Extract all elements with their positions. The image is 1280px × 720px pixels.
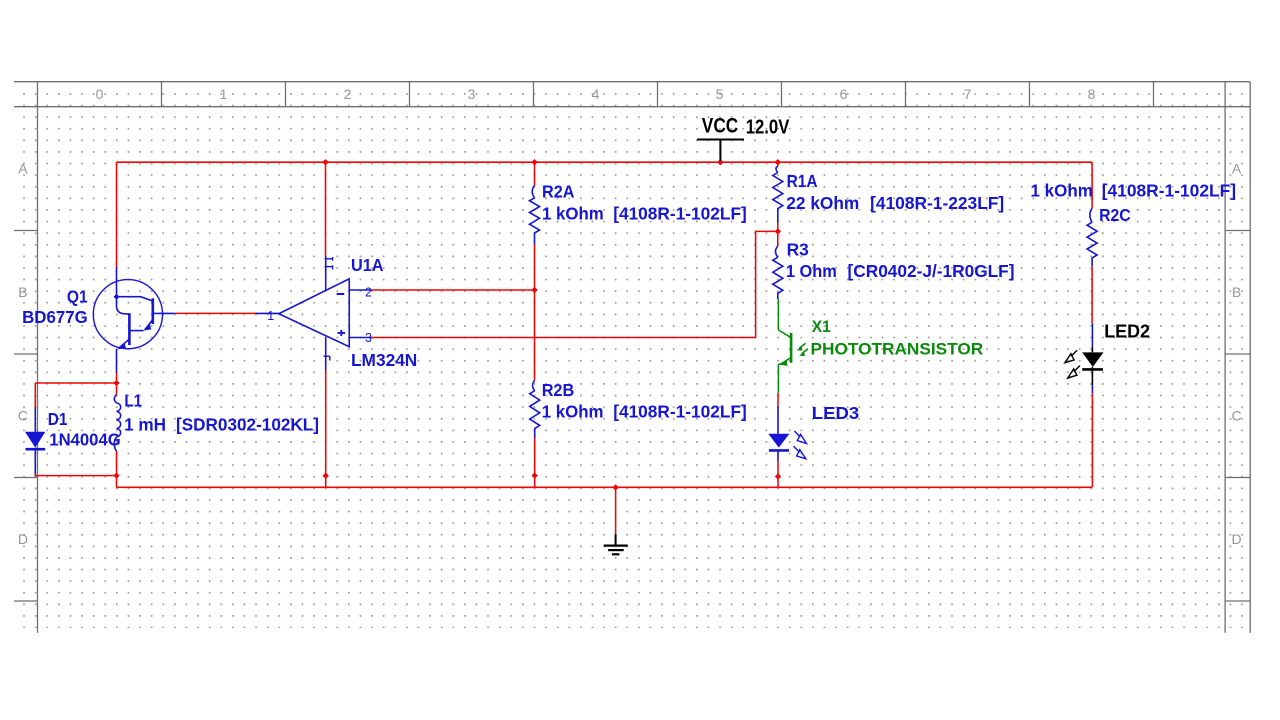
svg-text:R2B: R2B (542, 380, 575, 400)
svg-text:1 kOhm: 1 kOhm (542, 401, 604, 421)
svg-text:1 kOhm: 1 kOhm (1031, 181, 1093, 201)
svg-text:PHOTOTRANSISTOR: PHOTOTRANSISTOR (811, 340, 984, 358)
svg-text:1 kOhm: 1 kOhm (542, 203, 604, 223)
svg-text:LED3: LED3 (812, 403, 860, 423)
svg-text:0: 0 (96, 86, 104, 102)
svg-text:12.0V: 12.0V (746, 116, 790, 138)
svg-text:4: 4 (592, 86, 600, 102)
svg-text:LED2: LED2 (1104, 322, 1150, 342)
svg-text:LM324N: LM324N (351, 350, 417, 370)
svg-text:2: 2 (365, 285, 372, 299)
svg-text:1 mH: 1 mH (124, 414, 166, 434)
svg-text:[4108R-1-223LF]: [4108R-1-223LF] (870, 193, 1004, 213)
svg-text:[4108R-1-102LF]: [4108R-1-102LF] (613, 203, 747, 223)
svg-text:6: 6 (840, 86, 848, 102)
svg-text:D: D (1231, 531, 1241, 547)
svg-text:[4108R-1-102LF]: [4108R-1-102LF] (613, 401, 747, 421)
svg-text:X1: X1 (812, 318, 831, 336)
svg-text:1: 1 (267, 309, 274, 323)
svg-text:L1: L1 (124, 391, 142, 411)
svg-text:C: C (1231, 408, 1241, 424)
svg-text:8: 8 (1088, 86, 1096, 102)
svg-text:D: D (18, 531, 28, 547)
svg-text:7: 7 (964, 86, 972, 102)
svg-text:BD677G: BD677G (22, 307, 88, 327)
svg-text:1: 1 (220, 86, 228, 102)
svg-text:R1A: R1A (787, 171, 818, 191)
svg-text:R2C: R2C (1099, 205, 1131, 225)
svg-text:3: 3 (468, 86, 476, 102)
svg-text:22 kOhm: 22 kOhm (786, 193, 859, 213)
svg-text:[SDR0302-102KL]: [SDR0302-102KL] (176, 414, 319, 434)
svg-text:A: A (1232, 161, 1242, 177)
svg-text:[4108R-1-102LF]: [4108R-1-102LF] (1102, 181, 1236, 201)
svg-text:1 Ohm: 1 Ohm (786, 261, 837, 281)
svg-text:3: 3 (365, 331, 372, 345)
svg-text:[CR0402-J/-1R0GLF]: [CR0402-J/-1R0GLF] (848, 261, 1015, 281)
svg-text:5: 5 (716, 86, 724, 102)
svg-text:B: B (18, 284, 27, 300)
svg-text:R2A: R2A (542, 182, 575, 202)
svg-text:2: 2 (344, 86, 352, 102)
svg-text:D1: D1 (48, 409, 68, 429)
svg-text:A: A (18, 161, 28, 177)
svg-text:VCC: VCC (702, 114, 739, 137)
svg-text:C: C (18, 408, 28, 424)
svg-text:U1A: U1A (351, 255, 384, 275)
svg-text:B: B (1232, 284, 1241, 300)
svg-text:1N4004G: 1N4004G (49, 430, 120, 450)
svg-text:Q1: Q1 (67, 287, 88, 307)
svg-text:R3: R3 (787, 239, 809, 259)
